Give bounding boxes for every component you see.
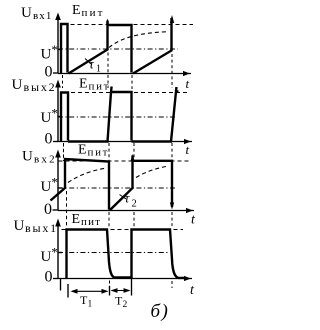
y-axis panel 3	[57, 155, 59, 211]
svg-text:б): б)	[151, 301, 170, 322]
svg-text:Е: Е	[72, 212, 81, 227]
event dashed vertical x=172 panel3->4	[171, 212, 173, 226]
svg-text:0: 0	[45, 131, 53, 148]
svg-text:2: 2	[132, 199, 137, 210]
svg-text:t: t	[186, 76, 190, 91]
event dashed vertical x=108 panel1->2	[107, 53, 109, 89]
y-axis arrowhead panel 4	[55, 219, 61, 227]
arrowhead up on rise panel 3	[131, 154, 135, 161]
event dashed vertical x=134 panel3->4	[133, 212, 135, 227]
T-bracket tick x=109.5	[109, 281, 111, 287]
svg-text:U: U	[12, 77, 23, 93]
event dashed vertical x=132 panel1->2	[131, 75, 133, 89]
event dashed vertical x=63.5 panel2->3	[63, 143, 65, 161]
E_pit dashed level panel 3	[59, 160, 191, 162]
E_pit dashed level panel 1	[71, 24, 194, 26]
svg-text:t: t	[186, 142, 190, 157]
tau1 leader line	[85, 59, 91, 65]
exponential continuation A (dashed) panel 3	[68, 168, 107, 183]
svg-text:0: 0	[44, 201, 52, 218]
T2 double arrow	[112, 290, 130, 292]
y-axis arrowhead panel 3	[55, 150, 61, 158]
x-axis panel 2	[58, 141, 192, 143]
T1 double arrow	[72, 290, 107, 292]
arrowhead down on final drop panel 3	[170, 203, 174, 210]
T-bracket tick x=131.5	[131, 279, 133, 296]
E_pit dashed level panel 4	[62, 229, 184, 231]
svg-text:0: 0	[45, 64, 53, 81]
event dashed vertical x=109 panel2->3	[108, 143, 110, 161]
y-axis panel 2	[57, 85, 59, 142]
x-axis panel 4	[58, 278, 192, 280]
svg-text:вых2: вых2	[24, 80, 57, 94]
U* dash-dot level panel 3	[58, 187, 175, 189]
svg-text:вх1: вх1	[33, 10, 53, 22]
U* dash-dot level panel 4	[58, 252, 170, 254]
event dashed vertical x=172 below panel 4	[171, 281, 173, 288]
x-axis panel 3	[58, 210, 194, 212]
svg-text:1: 1	[96, 64, 101, 75]
x-axis arrowhead panel 4	[184, 276, 191, 281]
T-bracket tick x=68	[67, 284, 69, 298]
event dashed vertical x=62 panel1->2	[62, 75, 64, 88]
y-axis panel 4	[57, 224, 59, 279]
event dashed vertical x=172 panel2->3	[171, 143, 173, 160]
svg-text:Е: Е	[72, 3, 81, 18]
svg-text:пит: пит	[88, 147, 110, 159]
svg-text:Е: Е	[78, 143, 87, 158]
E_pit dashed level panel 2	[64, 92, 188, 94]
x-axis arrowhead panel 1	[183, 71, 190, 76]
svg-text:U: U	[21, 5, 32, 21]
svg-text:1: 1	[88, 300, 93, 310]
svg-text:вх2: вх2	[34, 153, 57, 165]
svg-text:пит: пит	[81, 216, 101, 228]
svg-text:2: 2	[123, 300, 128, 310]
waveform U_vx1	[61, 18, 172, 74]
tau2 leader line	[120, 195, 127, 200]
svg-text:U: U	[14, 218, 25, 234]
small tip on first jump panel 1	[106, 19, 109, 24]
waveform U_vyx2	[61, 87, 179, 142]
svg-text:вых1: вых1	[25, 221, 58, 235]
y-axis arrowhead panel 1	[55, 13, 61, 21]
event dashed vertical x=66.5 panel3->4	[66, 191, 68, 228]
svg-text:Е: Е	[79, 77, 88, 92]
arrowhead on final jump panel 1	[170, 15, 174, 23]
svg-text:пит: пит	[89, 81, 111, 93]
event dashed vertical x=172 panel1->2	[171, 54, 173, 88]
x-axis arrowhead panel 3	[186, 208, 193, 213]
svg-text:0: 0	[45, 269, 53, 286]
U* dash-dot level panel 1	[58, 48, 178, 50]
waveform U_vx2	[51, 156, 173, 211]
svg-text:пит: пит	[82, 7, 105, 19]
waveform U_vyx1	[67, 230, 187, 279]
y-axis panel 1	[57, 17, 59, 74]
exponential continuation (dashed) panel 1	[109, 32, 166, 48]
exponential continuation B (dashed) panel 3	[136, 167, 166, 178]
y-axis arrowhead panel 2	[55, 80, 61, 88]
x-axis arrowhead panel 2	[184, 139, 191, 144]
x-axis panel 1	[58, 73, 191, 75]
event dashed vertical x=109 panel3->4	[108, 212, 110, 227]
T-bracket tick x=60	[60, 279, 62, 291]
svg-text:U: U	[22, 149, 33, 165]
U* dash-dot level panel 2	[58, 116, 175, 118]
event dashed vertical x=134 panel2->3	[133, 143, 135, 158]
